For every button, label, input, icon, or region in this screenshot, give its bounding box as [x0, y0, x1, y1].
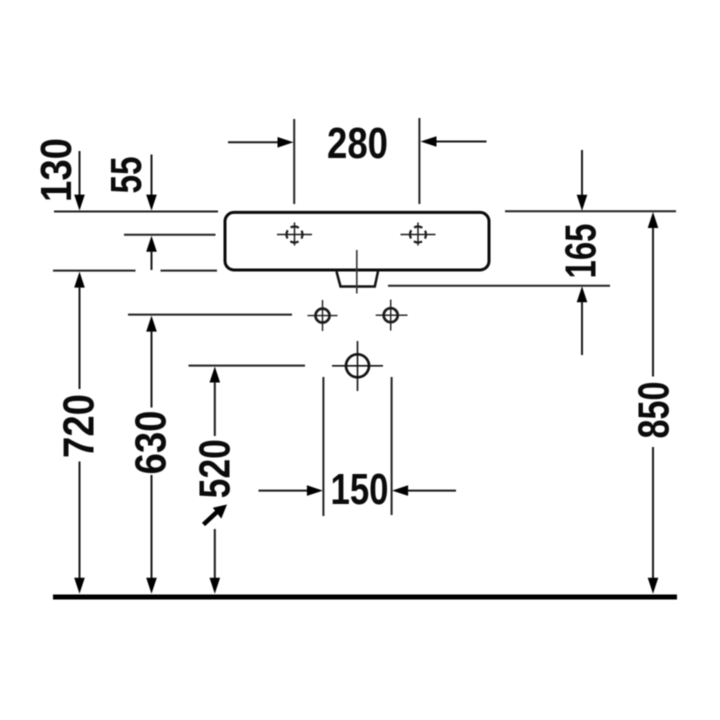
svg-text:720: 720 [56, 394, 104, 458]
dim 520 line [210, 367, 221, 594]
reference line holes-level [128, 314, 292, 316]
dim 55 upper arrow [146, 155, 157, 211]
reference line basin-bottom b [161, 270, 218, 272]
faucet hole right [401, 223, 436, 246]
reference line 165-level [388, 285, 610, 287]
dim 630 line [146, 316, 157, 594]
svg-text:280: 280 [327, 120, 388, 168]
svg-text:630: 630 [128, 411, 176, 475]
basin outline [225, 212, 489, 270]
floor line [53, 595, 677, 600]
dim 165 upper arrow [577, 150, 588, 211]
drain trapezoid [337, 272, 379, 287]
dim 150 right arrow [392, 485, 456, 496]
extension line 280 right [418, 118, 420, 204]
adjustable direction arrow [204, 505, 228, 525]
wall hole left [308, 300, 338, 331]
dim 280 right arrow [421, 136, 487, 147]
svg-text:850: 850 [631, 382, 679, 439]
dim 280 left arrow [228, 137, 294, 148]
reference line faucet-axis [124, 234, 216, 236]
reference line basin-bottom a [53, 270, 136, 272]
dim 850 line [648, 212, 659, 594]
svg-text:165: 165 [557, 224, 605, 279]
extension line 150 right [391, 377, 393, 515]
extension line 280 left [293, 119, 295, 204]
wall hole right [376, 300, 408, 331]
dim 130 arrow [74, 151, 85, 211]
dim 720 line [74, 272, 85, 594]
svg-text:55: 55 [103, 157, 151, 194]
drain centerline [356, 250, 358, 294]
reference line rim-right [505, 210, 676, 212]
svg-text:150: 150 [331, 466, 389, 514]
dim 165 lower arrow [577, 286, 588, 355]
drain pipe circle [332, 341, 383, 391]
reference line rim-left [54, 211, 218, 213]
svg-text:520: 520 [192, 439, 240, 498]
svg-text:130: 130 [33, 138, 81, 202]
extension line 150 left [322, 377, 324, 516]
faucet hole left [277, 223, 312, 246]
dim 150 left arrow [259, 485, 323, 496]
dim 55 lower arrow [146, 236, 157, 270]
reference line 520-level [189, 365, 306, 367]
